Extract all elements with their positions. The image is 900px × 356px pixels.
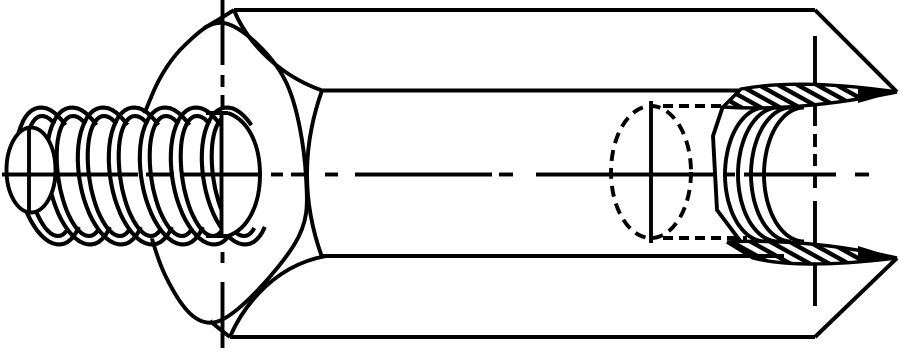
thread runout bottom ledge	[206, 234, 228, 238]
screw tip chamfer ellipse	[7, 128, 56, 213]
male thread crest 5	[140, 108, 203, 245]
thread runout D-arc	[228, 113, 260, 236]
middle face chamfer curve	[307, 91, 322, 258]
female thread crest 3	[751, 108, 791, 242]
thread runout back edge at hex face	[220, 112, 224, 236]
male thread crest 7	[202, 108, 265, 245]
screw tip vertical centerline	[27, 127, 31, 213]
hex body top edge	[234, 8, 815, 12]
chamfer circle of hex left face (oval)	[137, 23, 307, 323]
hex upper face edge line	[322, 89, 745, 93]
thread runout D body (occlusion)	[222, 112, 261, 236]
hidden hole wall top dashed line	[663, 104, 723, 108]
thread runout top ledge	[206, 111, 228, 115]
bottom face chamfer sweep curve	[230, 256, 326, 337]
centerline: horizontal axis through screw	[2, 173, 262, 177]
hex bottom-right chamfer diagonal	[815, 258, 897, 337]
bottom chamfer band of female thread (hatched)	[727, 241, 897, 264]
male thread crest 4	[109, 108, 172, 245]
top face chamfer sweep curve	[234, 10, 322, 91]
screw body silhouette (occlusion)	[8, 110, 232, 240]
female thread crest 1	[725, 108, 765, 242]
hex body bottom edge	[230, 335, 815, 339]
centerline: horizontal main axis	[271, 173, 869, 177]
male thread crest 2	[47, 108, 110, 245]
hex lower face edge line	[322, 254, 740, 258]
hole bottom vertical centerline cross	[649, 101, 653, 243]
female thread crest 2	[738, 108, 778, 242]
hex top-right chamfer diagonal	[815, 10, 897, 92]
female thread crest 4	[764, 108, 804, 242]
centerline: vertical axis of hex left face	[221, 0, 225, 348]
hidden hole wall bottom dashed line	[663, 236, 747, 240]
male thread crest 3	[78, 108, 141, 245]
top chamfer band of female thread (hatched)	[723, 84, 897, 108]
bottom hex corner cap	[210, 321, 230, 337]
centerline: vertical axis of female thread	[813, 36, 817, 306]
hidden hole bottom: dashed ellipse	[611, 106, 691, 238]
male thread crest 1	[16, 108, 79, 245]
broken-out section edge	[713, 106, 753, 258]
male thread crest 6	[171, 108, 234, 245]
hex lower face edge line over band	[322, 254, 784, 258]
top hex corner cap	[204, 10, 234, 28]
